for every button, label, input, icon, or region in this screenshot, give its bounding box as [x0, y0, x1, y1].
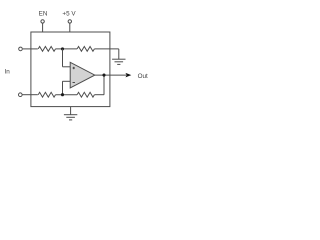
- svg-text:+5 V: +5 V: [62, 11, 76, 18]
- svg-text:In: In: [5, 69, 11, 76]
- svg-text:EN: EN: [39, 11, 48, 18]
- svg-text:Out: Out: [138, 73, 148, 80]
